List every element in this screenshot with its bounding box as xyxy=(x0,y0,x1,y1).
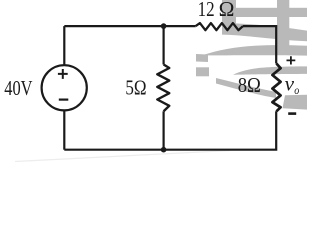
watermark wedge 2 xyxy=(233,66,307,74)
svg-text:8Ω: 8Ω xyxy=(238,73,261,97)
watermark blob left of wedge 2 xyxy=(196,67,209,76)
svg-text:5Ω: 5Ω xyxy=(125,76,146,100)
svg-text:v: v xyxy=(285,72,295,96)
wire middle branch bottom xyxy=(163,111,165,149)
voltage source plus sign xyxy=(58,69,68,79)
resistor R 12-ohm (horizontal zigzag) xyxy=(196,23,243,30)
watermark column 1 xyxy=(222,0,236,34)
watermark wedge 1 xyxy=(202,45,307,56)
watermark bar 1 xyxy=(236,8,307,17)
wire right branch bottom xyxy=(64,111,276,149)
watermark blob left of wedge 1 xyxy=(196,54,208,62)
faint scan artifact line bottom-left xyxy=(15,151,230,162)
wire top: left node to 12-ohm resistor xyxy=(64,25,195,27)
svg-text:12: 12 xyxy=(198,0,215,21)
wire left branch top xyxy=(63,26,65,65)
svg-text:Ω: Ω xyxy=(219,0,235,21)
wire middle branch top xyxy=(163,26,165,64)
node junction dot bottom xyxy=(161,147,167,153)
wire left branch bottom xyxy=(63,110,65,150)
voltage source V1 circle xyxy=(42,65,87,110)
wire top right + right branch down to 8-ohm resistor xyxy=(243,26,276,63)
watermark bar 2 xyxy=(222,23,307,41)
svg-text:o: o xyxy=(294,83,299,97)
watermark block right of 8-ohm resistor xyxy=(283,95,308,110)
minus sign of vo xyxy=(288,112,296,115)
resistor R 8-ohm (vertical zigzag) xyxy=(272,64,280,112)
watermark column 2 xyxy=(277,0,289,47)
voltage source minus sign xyxy=(59,98,69,100)
watermark swoosh behind 8-ohm label xyxy=(216,78,276,98)
resistor R 5-ohm (vertical zigzag) xyxy=(157,65,169,112)
svg-text:40V: 40V xyxy=(4,76,32,100)
plus sign of vo xyxy=(287,56,296,64)
node junction dot top xyxy=(161,23,167,29)
